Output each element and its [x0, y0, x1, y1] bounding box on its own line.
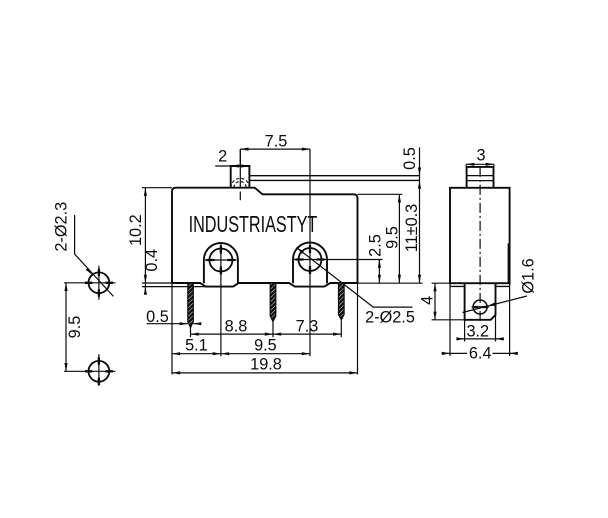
svg-text:INDUSTRIASTYT: INDUSTRIASTYT [189, 212, 318, 238]
dimension 4 [419, 283, 465, 320]
centerline hole left [220, 244, 222, 357]
svg-text:19.8: 19.8 [250, 356, 282, 374]
hidden spring dome (dashed arcs) [231, 178, 250, 187]
crosshair top [64, 266, 115, 300]
svg-text:Ø1.6: Ø1.6 [520, 258, 538, 293]
dimension 7.3 [273, 317, 341, 337]
svg-text:4: 4 [419, 296, 437, 305]
dimension 0.5 pin width [146, 308, 201, 326]
dimension 19.8 [172, 283, 358, 375]
leader Ø1.6 [463, 258, 538, 312]
hole circle bottom (Ø2.3) [89, 361, 110, 382]
terminal pin 1 [188, 283, 194, 328]
leader 2-Ø2.5 [296, 246, 415, 326]
mounting hole right (2-Ø2.5) [299, 248, 322, 271]
dimension 9.5 right [358, 194, 403, 283]
svg-text:3.2: 3.2 [466, 322, 489, 340]
svg-text:9.5: 9.5 [254, 336, 277, 354]
dimension 5.1 [172, 283, 221, 375]
body outline [172, 188, 358, 287]
leader 2-Ø2.3 [52, 202, 113, 297]
brand text [189, 212, 318, 238]
side hole (Ø1.6) [473, 300, 487, 314]
dimension 0.5 lever thickness [401, 147, 421, 283]
dimension 9.5 left [64, 283, 84, 372]
dimension 3 [466, 147, 494, 167]
svg-text:8.8: 8.8 [225, 317, 248, 335]
hole circle top (Ø2.3) [89, 272, 110, 293]
terminal pin 3 [339, 283, 345, 320]
svg-text:2-Ø2.3: 2-Ø2.3 [52, 202, 70, 252]
dimension 8.8 [191, 317, 274, 337]
dimension 11±0.3 [403, 204, 421, 283]
mounting boss right [293, 243, 327, 284]
side view step lines 0.4 [450, 285, 509, 287]
side body [450, 188, 510, 283]
svg-text:7.5: 7.5 [265, 132, 288, 150]
dimension 6.4 [442, 283, 518, 362]
svg-text:0.5: 0.5 [146, 308, 169, 326]
side hole crosshair [472, 306, 489, 308]
svg-text:7.3: 7.3 [296, 317, 319, 335]
dimension 3.2 [456, 315, 504, 342]
mounting hole left (2-Ø2.5) [209, 249, 232, 272]
svg-text:10.2: 10.2 [127, 214, 145, 246]
dimension 0.4 [142, 249, 206, 295]
centerline hole right / extension for 7.5 [309, 149, 311, 356]
push button [231, 166, 250, 188]
dimension 9.5 bottom [221, 336, 310, 355]
lever plate (0.5 thick) [249, 176, 419, 181]
svg-text:5.1: 5.1 [185, 336, 208, 354]
svg-text:2-Ø2.5: 2-Ø2.5 [365, 309, 415, 327]
mounting boss left [204, 243, 238, 283]
side view terminal edge-on at right [507, 244, 509, 284]
svg-text:9.5: 9.5 [66, 316, 84, 339]
svg-text:11±0.3: 11±0.3 [403, 204, 421, 252]
side centerline (dash-dot) [479, 167, 481, 323]
dimension 10.2 [127, 188, 172, 294]
side plug/button [467, 167, 494, 188]
svg-text:6.4: 6.4 [469, 344, 492, 362]
svg-text:3: 3 [476, 147, 485, 165]
svg-text:2: 2 [218, 147, 227, 165]
svg-text:2.5: 2.5 [367, 234, 385, 257]
dimension 2.5 [327, 234, 423, 283]
side foot [465, 283, 496, 320]
svg-text:0.4: 0.4 [143, 249, 161, 272]
dimension 7.5 [240, 132, 310, 166]
svg-text:9.5: 9.5 [383, 226, 401, 249]
dimension 2 [215, 147, 249, 167]
crosshair bottom [64, 354, 115, 385]
terminal pin 2 [270, 283, 276, 322]
centerline button [239, 149, 241, 200]
svg-text:0.5: 0.5 [401, 147, 419, 170]
lever edges in plug [467, 176, 494, 181]
center-mark heavy dashes [85, 245, 487, 385]
